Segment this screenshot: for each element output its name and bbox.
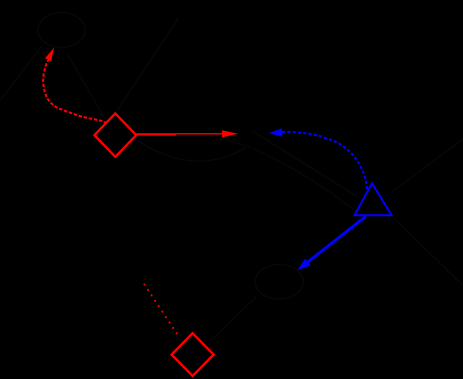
wire: faint curved edge diamond C to center node	[137, 141, 246, 162]
wire: faint edge from top to diamond C	[117, 17, 179, 111]
wire: red arrowhead pointing up at ellipse A	[45, 48, 54, 62]
diamond J: red diamond node bottom	[172, 333, 214, 376]
wire: red dotted edge to diamond J	[144, 285, 177, 335]
wire: faint edge from top-right to triangle	[391, 139, 463, 193]
wire: red bold arrow shaft from diamond C	[137, 133, 177, 135]
wire: red arrowhead pointing right at center node	[222, 130, 238, 137]
node H: ellipse bottom-center	[255, 264, 303, 299]
wire: faint edge ellipse A to diamond C	[67, 54, 107, 123]
wire: blue bold edge from triangle to ellipse H	[308, 216, 366, 262]
wire: faint arrow stub at diamond J top-left	[171, 332, 184, 344]
wire: faint edge ellipse H to diamond J	[211, 297, 257, 341]
wire: faint edge triangle to bottom-right	[394, 218, 463, 285]
wire: blue arrowhead pointing down-left at ellipse H	[298, 259, 311, 271]
wire: faint straight edge center node to triangle left edge	[253, 132, 357, 197]
wire: faint curved edge center node to triangle	[254, 149, 357, 212]
wire: blue dashed curve from center to triangle F	[282, 132, 368, 191]
wire: red thin arrow shaft continuation	[176, 133, 223, 135]
wire: blue arrowhead pointing left at center node	[269, 128, 282, 137]
diamond C: red diamond node	[94, 113, 136, 156]
node center: faint arrowhead mark	[221, 139, 251, 148]
node A: ellipse top-left	[38, 13, 85, 48]
wire: red dashed curve from diamond C up to ellipse A	[43, 59, 107, 123]
triangle F: blue triangle node	[355, 183, 392, 215]
wire: faint edge into top-left ellipse from lower-left	[0, 47, 42, 101]
